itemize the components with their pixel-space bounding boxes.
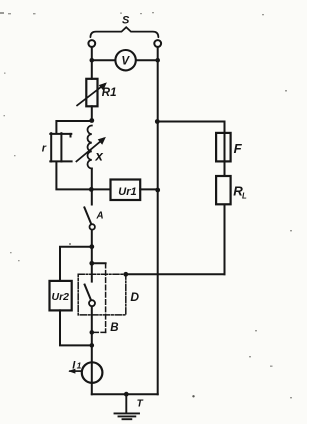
svg-text:L: L — [242, 191, 247, 200]
svg-text:Ur1: Ur1 — [118, 186, 136, 198]
svg-text:x: x — [94, 148, 103, 163]
svg-text:Ur2: Ur2 — [52, 291, 70, 303]
svg-text:A: A — [96, 211, 104, 222]
svg-text:R1: R1 — [102, 87, 117, 99]
svg-text:T: T — [137, 398, 144, 409]
svg-text:1: 1 — [77, 360, 82, 370]
svg-text:S: S — [122, 14, 130, 26]
svg-text:r: r — [42, 143, 47, 155]
svg-text:I: I — [72, 359, 76, 371]
svg-text:V: V — [121, 55, 130, 67]
svg-text:D: D — [130, 290, 139, 304]
svg-text:F: F — [234, 141, 243, 156]
svg-text:B: B — [110, 322, 118, 334]
